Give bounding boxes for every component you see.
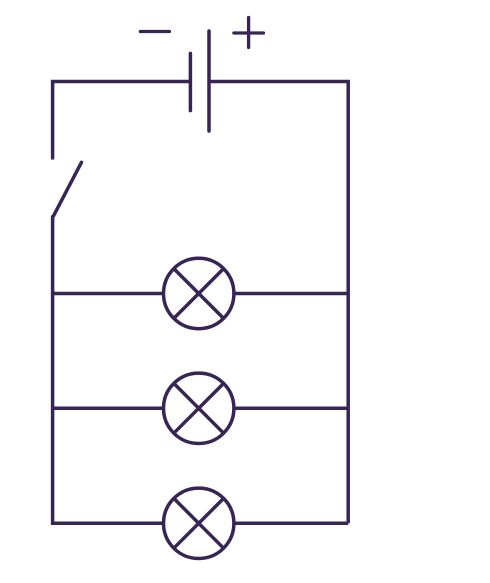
wire branch 1 right [234, 292, 348, 296]
switch S1 (open blade) [53, 162, 81, 216]
wire branch 2 right [234, 407, 348, 411]
wire branch 2 left [53, 407, 164, 411]
lamp L1 [164, 258, 234, 328]
wire top-right (battery to right rail) [209, 82, 348, 524]
wire left rail lower [53, 216, 164, 524]
wire bottom right [234, 522, 348, 526]
label plus (+) [234, 18, 264, 48]
battery cell bars [190, 31, 209, 131]
lamp L2 [164, 373, 234, 443]
label minus (-) [140, 30, 169, 33]
battery positive plate (long bar) [207, 31, 211, 131]
wire top-left (battery to left rail) [53, 82, 189, 159]
lamp L3 [164, 488, 234, 558]
wire branch 1 left [53, 292, 164, 296]
battery negative plate (short bar) [189, 53, 193, 110]
